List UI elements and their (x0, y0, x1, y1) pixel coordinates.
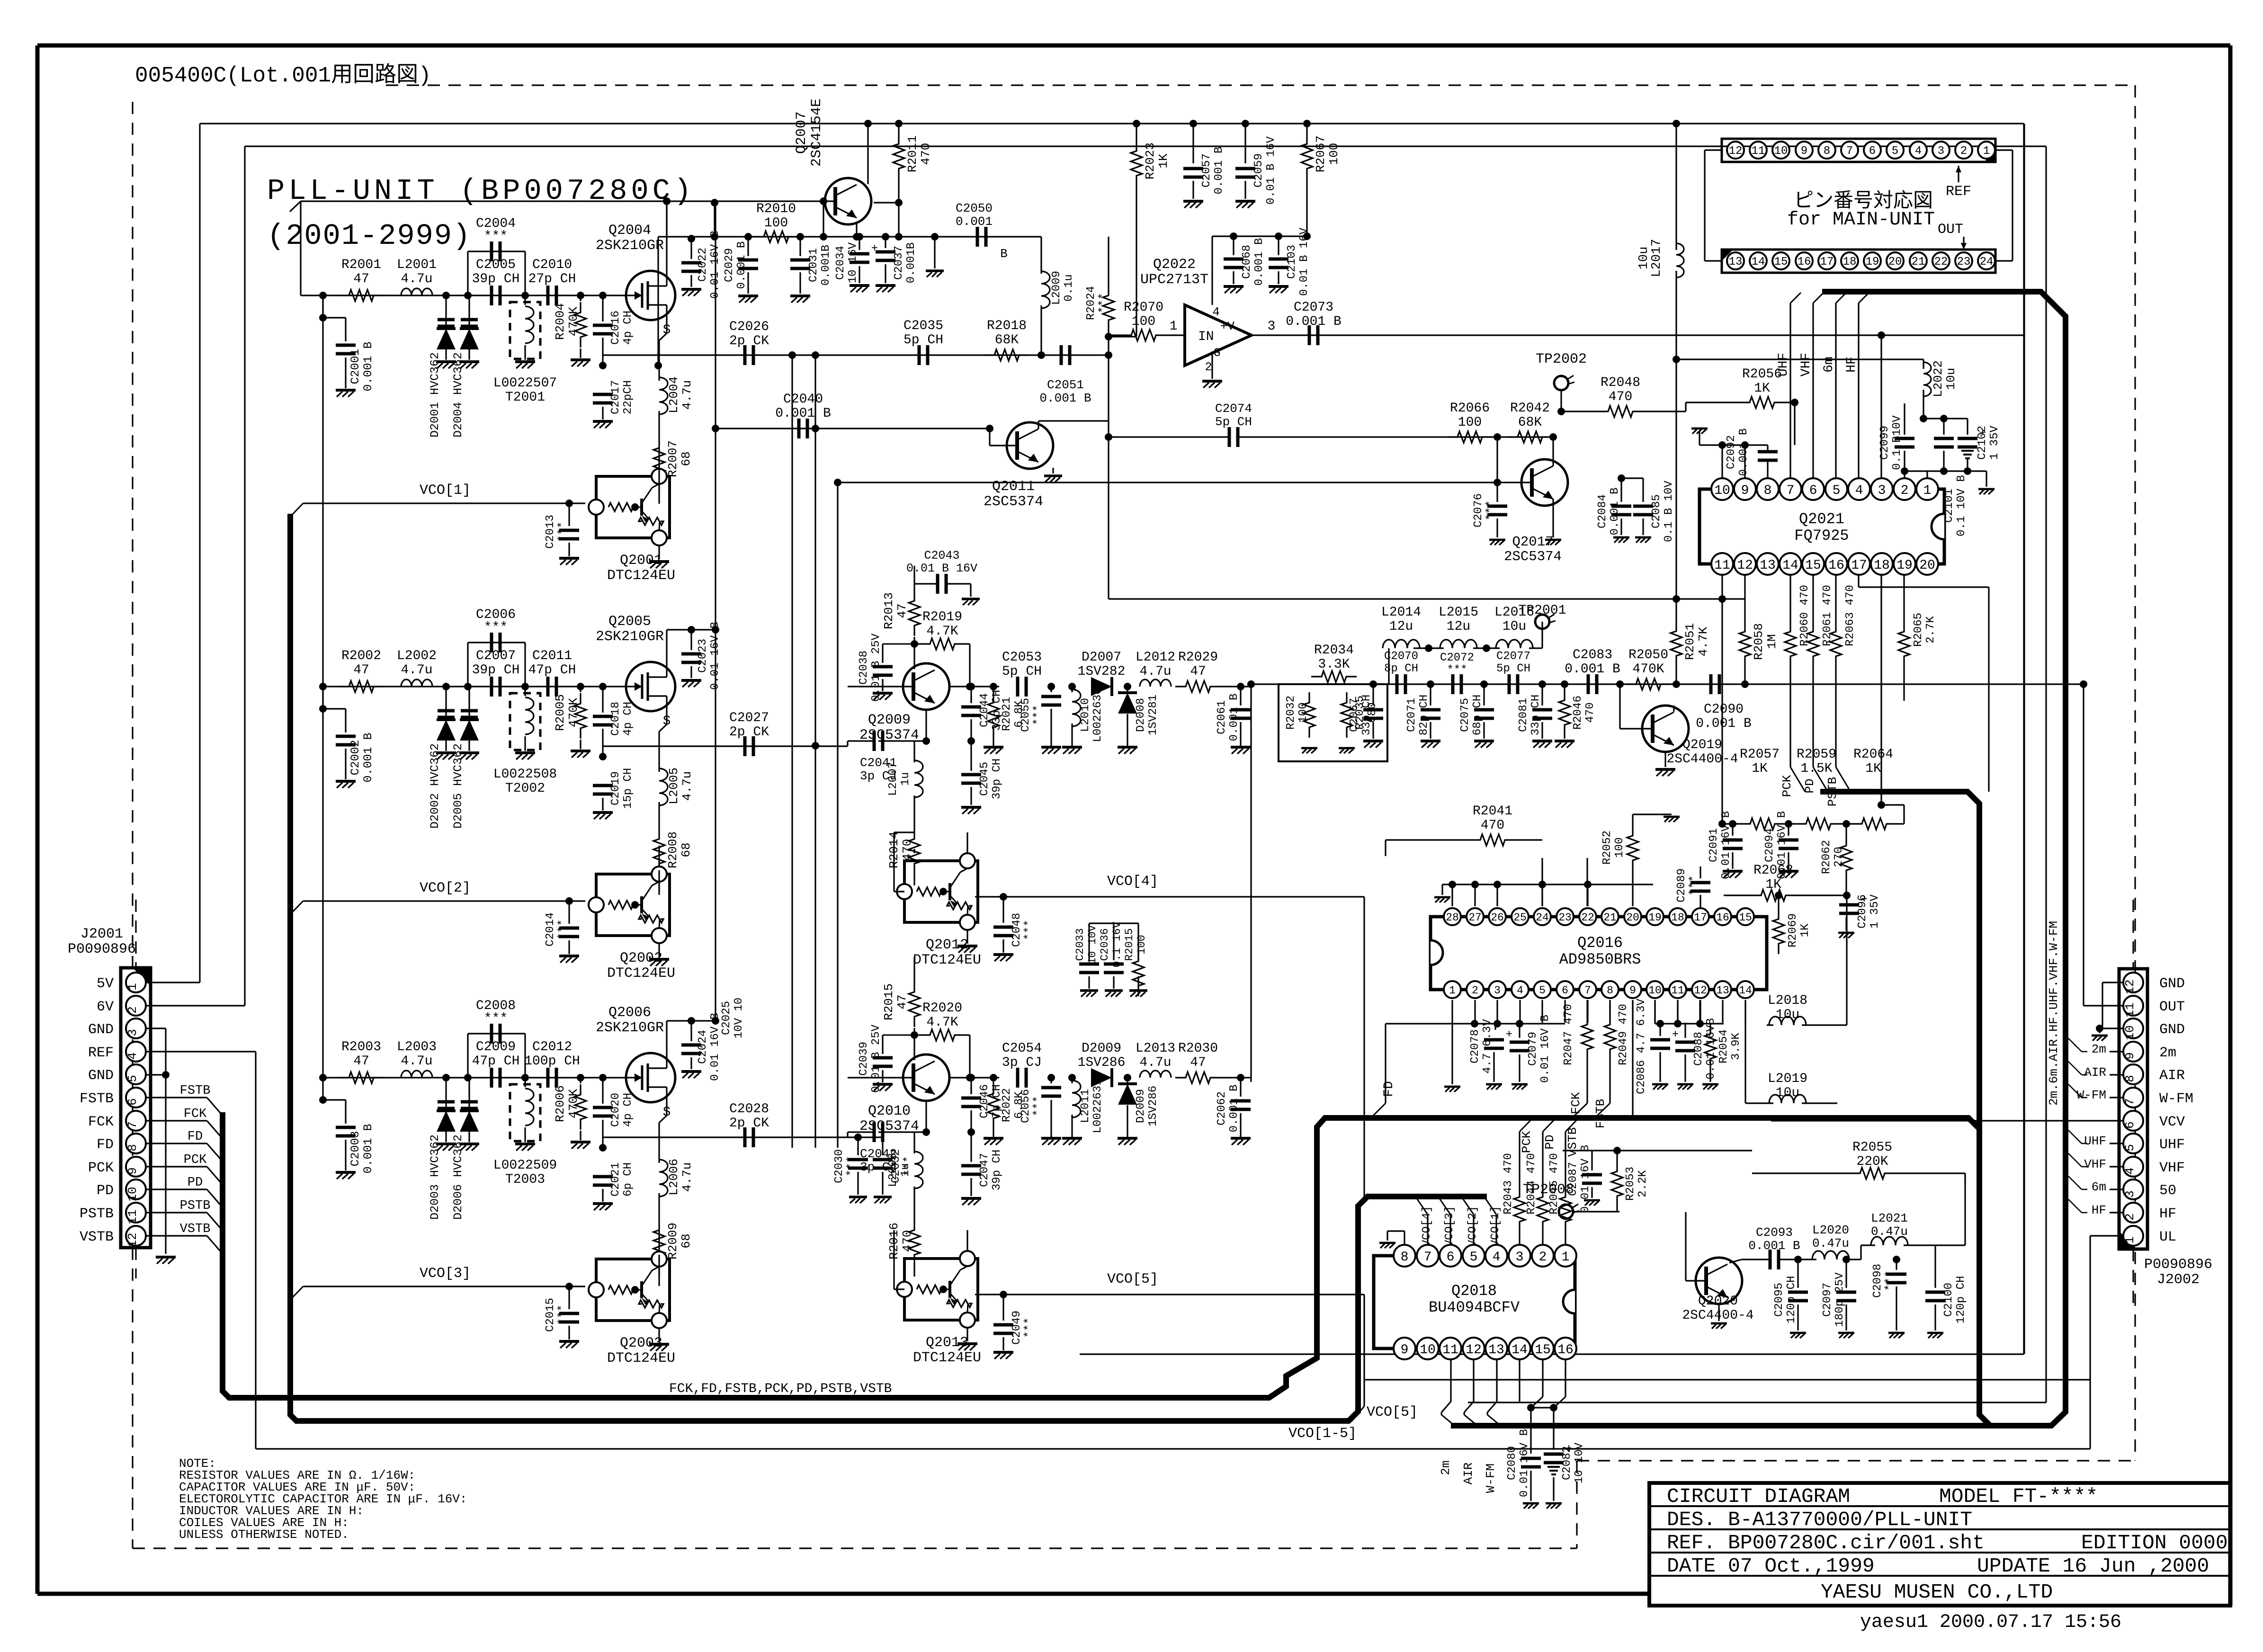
svg-text:R2059: R2059 (1797, 747, 1836, 762)
svg-text:1: 1 (1562, 1250, 1570, 1265)
svg-text:BU4094BCFV: BU4094BCFV (1429, 1299, 1520, 1316)
svg-text:5: 5 (2123, 1144, 2137, 1152)
svg-text:0.001 B: 0.001 B (735, 241, 748, 289)
svg-text:C2053: C2053 (1002, 650, 1042, 665)
svg-text:47: 47 (353, 1054, 369, 1069)
svg-text:R2008: R2008 (666, 831, 680, 868)
svg-text:L2011: L2011 (1079, 1089, 1092, 1123)
svg-text:+: + (1672, 1028, 1679, 1041)
svg-text:CIRCUIT DIAGRAM: CIRCUIT DIAGRAM (1667, 1485, 1850, 1508)
svg-text:68K: 68K (995, 333, 1019, 348)
svg-text:C2093: C2093 (1756, 1225, 1793, 1240)
svg-text:R2063 470: R2063 470 (1844, 585, 1857, 646)
svg-text:4.7u: 4.7u (401, 272, 432, 286)
svg-text:C2005: C2005 (476, 258, 516, 272)
svg-text:10u: 10u (1776, 1086, 1799, 1100)
svg-text:470K: 470K (566, 306, 581, 336)
svg-text:2: 2 (1901, 483, 1909, 498)
svg-text:C2048: C2048 (1011, 913, 1023, 947)
svg-text:R2004: R2004 (553, 303, 567, 340)
svg-text:9: 9 (1401, 1343, 1409, 1357)
svg-text:C2059: C2059 (1252, 153, 1265, 188)
svg-text:12: 12 (1729, 145, 1743, 158)
svg-text:47: 47 (895, 603, 909, 618)
svg-text:39p CH: 39p CH (991, 759, 1003, 799)
svg-text:23: 23 (1558, 911, 1572, 924)
svg-text:2SK210GR: 2SK210GR (596, 238, 664, 254)
svg-text:0.01 16V B: 0.01 16V B (709, 1013, 722, 1081)
svg-text:L0022507: L0022507 (493, 376, 557, 391)
svg-text:R2019: R2019 (922, 610, 962, 625)
svg-text:68: 68 (679, 842, 693, 857)
svg-text:VCO[1]: VCO[1] (420, 482, 471, 499)
svg-text:PD: PD (1543, 1134, 1557, 1149)
svg-text:EDITION 0000: EDITION 0000 (2081, 1531, 2228, 1554)
svg-text:17: 17 (1694, 911, 1707, 924)
svg-text:68K: 68K (1518, 415, 1542, 430)
svg-text:***: *** (1032, 705, 1045, 725)
svg-text:9: 9 (1629, 984, 1636, 997)
svg-text:13: 13 (1488, 1343, 1504, 1357)
svg-text:DTC124EU: DTC124EU (913, 1350, 981, 1366)
svg-text:L2006: L2006 (667, 1159, 681, 1196)
svg-text:2SC4154E: 2SC4154E (809, 98, 825, 167)
svg-text:4: 4 (1855, 483, 1863, 498)
svg-text:25: 25 (1513, 911, 1527, 924)
svg-text:C2036: C2036 (1099, 928, 1111, 961)
svg-text:C2014: C2014 (544, 912, 557, 947)
svg-text:0.001 B: 0.001 B (1286, 314, 1342, 329)
svg-text:AIR: AIR (2084, 1065, 2106, 1080)
svg-text:R2069: R2069 (1787, 913, 1799, 947)
svg-text:L2018: L2018 (1768, 993, 1807, 1008)
svg-text:1K: 1K (1865, 761, 1881, 776)
svg-text:470: 470 (900, 839, 914, 861)
svg-text:L0022509: L0022509 (493, 1158, 557, 1173)
svg-text:C2035: C2035 (903, 319, 943, 333)
svg-text:R2042: R2042 (1510, 401, 1550, 416)
svg-text:C2101: C2101 (1943, 489, 1956, 523)
svg-text:R2005: R2005 (553, 694, 567, 731)
svg-text:C2038: C2038 (858, 651, 870, 685)
svg-text:1: 1 (2123, 1236, 2137, 1244)
svg-text:1SV286: 1SV286 (1147, 1086, 1160, 1126)
svg-text:10V 10: 10V 10 (733, 998, 745, 1038)
svg-text:C2102: C2102 (1976, 426, 1989, 460)
svg-text:***: *** (1485, 500, 1497, 520)
svg-text:5: 5 (1833, 483, 1841, 498)
svg-text:R2054: R2054 (1717, 1029, 1730, 1063)
svg-text:13: 13 (1729, 256, 1743, 268)
svg-text:L2012: L2012 (1136, 650, 1175, 665)
svg-text:28: 28 (1446, 911, 1459, 924)
svg-text:39p CH: 39p CH (472, 272, 520, 286)
svg-text:1K: 1K (1752, 761, 1768, 776)
svg-text:C2043: C2043 (924, 549, 959, 563)
svg-text:15: 15 (1805, 558, 1821, 573)
svg-text:4.7u: 4.7u (1139, 1055, 1171, 1070)
svg-text:C2002: C2002 (349, 740, 362, 775)
svg-text:0.001 B: 0.001 B (361, 341, 375, 391)
svg-text:L2021: L2021 (1871, 1211, 1908, 1225)
svg-text:C2010: C2010 (532, 258, 572, 272)
svg-text:3: 3 (125, 1029, 140, 1036)
svg-text:C2018: C2018 (609, 702, 622, 736)
svg-text:C2023: C2023 (697, 639, 709, 673)
svg-text:100: 100 (764, 216, 788, 231)
svg-text:YAESU MUSEN CO.,LTD: YAESU MUSEN CO.,LTD (1821, 1581, 2053, 1604)
svg-text:14: 14 (1739, 984, 1752, 997)
svg-text:5: 5 (1470, 1250, 1478, 1265)
svg-text:C2084: C2084 (1596, 494, 1609, 528)
svg-text:D2001 HVC362: D2001 HVC362 (428, 352, 442, 438)
svg-text:***: *** (1023, 920, 1036, 940)
svg-text:T2002: T2002 (505, 781, 545, 796)
svg-text:R2007: R2007 (666, 440, 680, 477)
svg-text:FSTB: FSTB (180, 1084, 211, 1098)
svg-text:2.2K: 2.2K (1637, 1170, 1649, 1197)
svg-text:6: 6 (1447, 1250, 1455, 1265)
svg-text:VCO[5]: VCO[5] (1367, 1404, 1418, 1420)
svg-text:VCO[3]: VCO[3] (420, 1266, 471, 1282)
svg-text:D2005 HVC362: D2005 HVC362 (451, 743, 465, 829)
svg-text:8: 8 (1607, 984, 1613, 997)
svg-text:***: *** (1688, 875, 1700, 895)
svg-text:12u: 12u (1389, 619, 1413, 634)
svg-text:C2079: C2079 (1527, 1032, 1539, 1066)
svg-text:3.9K: 3.9K (1730, 1033, 1743, 1060)
svg-text:4.7K: 4.7K (1696, 626, 1710, 656)
svg-text:Q2016: Q2016 (1577, 934, 1623, 952)
svg-text:***: *** (556, 1304, 569, 1325)
svg-text:***: *** (556, 919, 569, 939)
svg-text:UNLESS OTHERWISE NOTED.: UNLESS OTHERWISE NOTED. (179, 1527, 349, 1542)
svg-text:10u: 10u (1503, 619, 1526, 634)
svg-text:6: 6 (1869, 145, 1876, 158)
svg-text:6: 6 (125, 1098, 140, 1106)
svg-text:3: 3 (1938, 145, 1944, 158)
svg-text:C2082: C2082 (1561, 1446, 1574, 1480)
svg-text:VCO[1]: VCO[1] (1489, 1206, 1502, 1247)
svg-text:17: 17 (1820, 256, 1834, 268)
svg-text:7: 7 (1787, 483, 1795, 498)
svg-text:0.01 B 25V: 0.01 B 25V (870, 1024, 883, 1093)
svg-text:VCO[2]: VCO[2] (1467, 1206, 1479, 1247)
svg-text:L2001: L2001 (397, 258, 437, 272)
svg-text:C2091: C2091 (1708, 828, 1720, 862)
svg-text:***: *** (1023, 1317, 1036, 1338)
svg-text:TP2008: TP2008 (1523, 1182, 1574, 1198)
svg-text:+: + (1506, 1028, 1512, 1041)
svg-text:VHF: VHF (2084, 1157, 2106, 1171)
svg-text:D2006 HVC362: D2006 HVC362 (451, 1134, 465, 1220)
svg-text:R2021: R2021 (1001, 697, 1013, 731)
svg-text:C2083: C2083 (1573, 648, 1612, 662)
svg-text:100: 100 (1297, 702, 1310, 723)
svg-text:***: *** (845, 1156, 858, 1176)
svg-text:AIR: AIR (1461, 1463, 1476, 1485)
svg-text:C2020: C2020 (609, 1093, 622, 1127)
svg-text:8p CH: 8p CH (1384, 662, 1418, 675)
svg-text:VHF: VHF (2159, 1160, 2185, 1176)
svg-text:47p CH: 47p CH (528, 663, 576, 678)
svg-text:D2003 HVC362: D2003 HVC362 (428, 1134, 442, 1220)
svg-text:6: 6 (1809, 483, 1817, 498)
svg-text:C2081: C2081 (1517, 698, 1530, 732)
svg-text:10: 10 (1648, 984, 1662, 997)
svg-text:L2009: L2009 (1050, 271, 1063, 305)
svg-text:2SK210GR: 2SK210GR (596, 629, 664, 645)
svg-text:VSTB: VSTB (80, 1229, 114, 1245)
svg-text:P0090896: P0090896 (2144, 1257, 2212, 1273)
svg-text:R2029: R2029 (1178, 650, 1218, 665)
svg-text:18: 18 (1843, 256, 1857, 268)
svg-text:2p CK: 2p CK (729, 334, 769, 348)
svg-text:L2002: L2002 (397, 649, 437, 663)
svg-text:OUT: OUT (2159, 999, 2185, 1015)
svg-text:D2002 HVC362: D2002 HVC362 (428, 743, 442, 829)
svg-text:68: 68 (679, 1233, 693, 1248)
svg-text:39p CH: 39p CH (991, 1150, 1003, 1190)
svg-text:REF: REF (1946, 184, 1971, 200)
svg-text:120p CH: 120p CH (1785, 1276, 1798, 1324)
svg-text:L2022: L2022 (1931, 360, 1945, 397)
svg-text:1: 1 (1170, 319, 1178, 334)
svg-text:L0022630: L0022630 (1091, 688, 1104, 742)
svg-text:C2021: C2021 (609, 1162, 622, 1197)
svg-text:4: 4 (2123, 1167, 2137, 1175)
svg-text:1K: 1K (1156, 153, 1171, 169)
svg-text:10: 10 (1774, 145, 1788, 158)
svg-text:R2051: R2051 (1683, 623, 1697, 660)
svg-text:***: *** (1447, 664, 1467, 677)
svg-text:1 35V: 1 35V (1988, 425, 2001, 460)
svg-text:PLL-UNIT (BP007280C): PLL-UNIT (BP007280C) (267, 174, 695, 208)
svg-text:16: 16 (1557, 1343, 1574, 1357)
svg-text:100: 100 (1136, 935, 1148, 954)
svg-text:L2014: L2014 (1381, 605, 1421, 620)
svg-text:FQ7925: FQ7925 (1794, 527, 1849, 545)
svg-text:2m.6m.AIR.HF.UHF.VHF.W-FM: 2m.6m.AIR.HF.UHF.VHF.W-FM (2047, 921, 2061, 1106)
svg-text:R2015: R2015 (1123, 928, 1136, 961)
svg-text:R2006: R2006 (553, 1085, 567, 1122)
svg-text:0.001 B: 0.001 B (1565, 662, 1620, 677)
svg-text:0.001 B: 0.001 B (1609, 488, 1621, 536)
svg-text:VCO[5]: VCO[5] (1107, 1271, 1158, 1287)
svg-text:R2043 470: R2043 470 (1502, 1153, 1515, 1214)
svg-text:11: 11 (1714, 558, 1730, 573)
svg-text:2: 2 (1960, 145, 1967, 158)
svg-text:G: G (1213, 346, 1220, 360)
svg-text:HF: HF (2092, 1203, 2106, 1217)
svg-text:C2030: C2030 (833, 1149, 846, 1183)
svg-text:R2020: R2020 (922, 1001, 962, 1016)
svg-text:5V: 5V (97, 976, 114, 992)
svg-text:13: 13 (1716, 984, 1729, 997)
svg-text:C2047: C2047 (978, 1153, 991, 1187)
svg-text:C2099: C2099 (1878, 426, 1891, 460)
svg-text:4p CH: 4p CH (622, 1093, 635, 1127)
svg-text:1: 1 (1983, 145, 1990, 158)
svg-text:GND: GND (88, 1068, 114, 1084)
svg-text:C2103: C2103 (1286, 245, 1298, 279)
svg-text:9: 9 (2123, 1052, 2137, 1060)
svg-text:10: 10 (1420, 1343, 1436, 1357)
svg-text:0.01 16V B: 0.01 16V B (1539, 1015, 1552, 1083)
svg-text:26: 26 (1491, 911, 1504, 924)
svg-text:R2068: R2068 (1753, 863, 1793, 878)
svg-text:8: 8 (2123, 1075, 2137, 1082)
svg-text:C2088: C2088 (1692, 1032, 1705, 1066)
svg-text:3: 3 (1516, 1250, 1524, 1265)
svg-text:1: 1 (1923, 483, 1932, 498)
svg-text:100p CH: 100p CH (524, 1054, 580, 1069)
svg-text:Q2007: Q2007 (794, 111, 810, 154)
svg-text:C2011: C2011 (532, 649, 572, 663)
svg-text:FD: FD (97, 1137, 114, 1153)
svg-text:R2056: R2056 (1742, 367, 1782, 382)
svg-text:17: 17 (1851, 558, 1867, 573)
svg-text:R2057: R2057 (1740, 747, 1780, 762)
svg-text:VCV: VCV (2159, 1114, 2185, 1130)
svg-text:HF: HF (2159, 1206, 2176, 1222)
svg-text:2: 2 (2123, 1213, 2137, 1221)
svg-text:R2015: R2015 (882, 983, 896, 1020)
svg-text:4.7u: 4.7u (680, 380, 694, 410)
svg-text:R2060 470: R2060 470 (1798, 585, 1811, 646)
svg-text:0.001 B: 0.001 B (361, 1124, 375, 1173)
svg-text:11: 11 (1442, 1343, 1458, 1357)
svg-text:C2057: C2057 (1200, 153, 1213, 188)
svg-text:C2027: C2027 (729, 711, 769, 725)
svg-text:PCK: PCK (184, 1153, 207, 1167)
svg-text:47p CH: 47p CH (472, 1054, 520, 1069)
svg-text:33p CH: 33p CH (1360, 695, 1373, 735)
svg-text:16: 16 (1828, 558, 1844, 573)
svg-text:C2022: C2022 (697, 248, 709, 282)
svg-text:10u: 10u (1944, 368, 1958, 390)
svg-text:***: *** (1884, 1270, 1896, 1291)
svg-text:C2068: C2068 (1241, 245, 1253, 279)
svg-text:0.1 B 10V: 0.1 B 10V (1663, 481, 1675, 542)
svg-text:C2100: C2100 (1942, 1283, 1955, 1317)
svg-text:4p CH: 4p CH (622, 311, 635, 345)
svg-text:D2009: D2009 (1082, 1041, 1121, 1056)
svg-text:5p CH: 5p CH (903, 333, 943, 348)
svg-text:C2094: C2094 (1763, 828, 1776, 862)
svg-text:0.001 B: 0.001 B (1696, 716, 1752, 731)
svg-text:C2001: C2001 (349, 348, 362, 384)
svg-text:R2022: R2022 (1001, 1088, 1013, 1122)
svg-text:0.001: 0.001 (956, 214, 993, 229)
svg-text:5: 5 (1539, 984, 1546, 997)
svg-text:C2077: C2077 (1496, 650, 1530, 663)
svg-text:FSTB: FSTB (1593, 1099, 1608, 1128)
svg-text:C2039: C2039 (858, 1042, 870, 1076)
svg-text:47: 47 (353, 272, 369, 286)
svg-text:VHF: VHF (1799, 353, 1814, 376)
svg-text:UL: UL (2159, 1229, 2176, 1245)
svg-text:L2017: L2017 (1650, 239, 1664, 277)
svg-text:C2074: C2074 (1215, 402, 1252, 416)
svg-text:PCK: PCK (1780, 775, 1794, 797)
svg-text:R2058: R2058 (1752, 623, 1766, 660)
svg-text:VSTB: VSTB (180, 1222, 211, 1236)
svg-text:C2017: C2017 (609, 380, 622, 414)
svg-text:R2010: R2010 (756, 202, 796, 216)
svg-text:120p CH: 120p CH (1955, 1276, 1968, 1324)
svg-text:22: 22 (1581, 911, 1594, 924)
svg-text:4: 4 (1493, 1250, 1501, 1265)
svg-text:C2097: C2097 (1821, 1283, 1834, 1317)
svg-text:C2003: C2003 (349, 1131, 362, 1166)
svg-text:VCO[2]: VCO[2] (420, 880, 471, 896)
svg-text:R2003: R2003 (341, 1040, 381, 1054)
svg-text:GND: GND (2159, 976, 2185, 992)
svg-text:1M: 1M (1765, 634, 1779, 649)
svg-text:R2009: R2009 (666, 1223, 680, 1259)
svg-text:1 35V: 1 35V (1869, 894, 1881, 929)
svg-text:9: 9 (125, 1167, 140, 1175)
svg-text:0.001 B: 0.001 B (1737, 429, 1750, 476)
svg-text:R2062: R2062 (1820, 840, 1833, 874)
svg-text:REF: REF (88, 1045, 114, 1061)
svg-text:2p CK: 2p CK (729, 1116, 769, 1131)
svg-text:Q2004: Q2004 (608, 223, 651, 239)
svg-text:L2008: L2008 (887, 1153, 900, 1187)
svg-text:10: 10 (125, 1187, 140, 1201)
svg-text:D2004 HVC362: D2004 HVC362 (451, 352, 465, 438)
svg-text:4.7u: 4.7u (1139, 664, 1171, 679)
svg-text:0.001 B: 0.001 B (1253, 238, 1266, 286)
svg-text:GND: GND (88, 1022, 114, 1038)
svg-text:C2040: C2040 (783, 392, 823, 407)
svg-text:R2055: R2055 (1852, 1140, 1892, 1155)
svg-text:10: 10 (2123, 1025, 2137, 1040)
svg-text:4: 4 (125, 1052, 140, 1060)
svg-text:***: *** (484, 1011, 508, 1026)
svg-text:IN: IN (1198, 330, 1214, 344)
svg-text:FCK,FD,FSTB,PCK,PD,PSTB,VSTB: FCK,FD,FSTB,PCK,PD,PSTB,VSTB (669, 1382, 892, 1396)
svg-text:12: 12 (2123, 979, 2137, 994)
svg-text:W-FM: W-FM (2159, 1091, 2193, 1107)
svg-text:VCO[4]: VCO[4] (1107, 874, 1158, 890)
svg-text:0.01 16V B: 0.01 16V B (1579, 1145, 1592, 1213)
svg-text:68: 68 (679, 451, 693, 466)
svg-text:DATE 07 Oct.,1999: DATE 07 Oct.,1999 (1667, 1554, 1875, 1578)
svg-text:C2045: C2045 (978, 762, 991, 796)
svg-text:C2050: C2050 (956, 201, 993, 215)
svg-text:0.1 10V B: 0.1 10V B (1955, 475, 1968, 536)
svg-text:GND: GND (2159, 1022, 2185, 1038)
svg-text:(2001-2999): (2001-2999) (267, 219, 471, 253)
svg-text:47: 47 (1190, 1055, 1206, 1070)
svg-text:0.1 16V: 0.1 16V (1111, 921, 1123, 967)
svg-text:0.01 B 16V: 0.01 B 16V (1265, 136, 1278, 205)
svg-text:L2005: L2005 (667, 768, 681, 804)
svg-text:180p 25V: 180p 25V (1834, 1272, 1846, 1327)
svg-text:0.001 B: 0.001 B (361, 732, 375, 782)
svg-text:20: 20 (1626, 911, 1639, 924)
svg-text:R2024: R2024 (1085, 286, 1098, 320)
svg-text:Q2022: Q2022 (1153, 257, 1196, 273)
svg-text:50: 50 (2159, 1183, 2176, 1199)
svg-text:10u: 10u (1776, 1008, 1799, 1022)
svg-text:T2001: T2001 (505, 390, 545, 405)
svg-text:C2061: C2061 (1216, 700, 1228, 734)
svg-text:21: 21 (1912, 256, 1925, 268)
svg-text:***: *** (556, 521, 569, 542)
